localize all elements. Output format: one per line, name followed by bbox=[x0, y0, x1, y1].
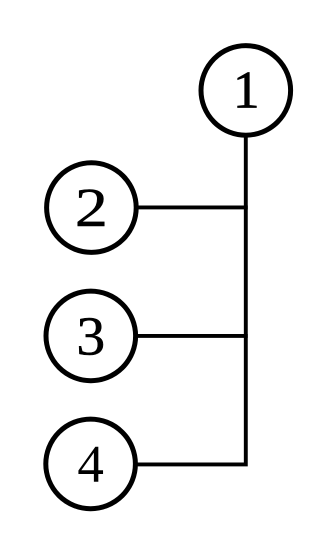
node 2 label "2" bbox=[75, 178, 108, 239]
wire node 2 to trunk bbox=[136, 205, 248, 209]
wire node 3 to trunk bbox=[136, 334, 248, 338]
node 4 circle bbox=[46, 419, 136, 509]
svg-text:1: 1 bbox=[233, 62, 260, 120]
svg-text:4: 4 bbox=[77, 436, 104, 494]
svg-text:2: 2 bbox=[75, 178, 108, 239]
node 3 label "3" bbox=[76, 307, 105, 367]
node 4 label "4" bbox=[77, 436, 104, 494]
svg-text:3: 3 bbox=[76, 307, 105, 367]
wire trunk from node 1 down with corner to node 4 bbox=[136, 135, 246, 464]
node 1 circle bbox=[201, 46, 291, 136]
node 3 circle bbox=[46, 291, 136, 381]
node 1 label "1" bbox=[233, 62, 260, 120]
node 2 circle bbox=[47, 163, 137, 253]
